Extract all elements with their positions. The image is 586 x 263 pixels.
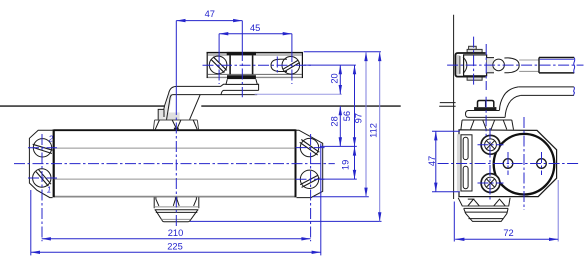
- body inner line lower: [55, 178, 295, 180]
- body inner line upper: [55, 147, 295, 149]
- arm plate: [466, 111, 506, 118]
- left end cap: [29, 130, 52, 197]
- svg-text:47: 47: [205, 9, 215, 19]
- centerline knuckle axis: [485, 44, 487, 90]
- svg-text:97: 97: [354, 113, 364, 123]
- dim 72: [455, 228, 558, 239]
- centerline shoe axis: [473, 37, 475, 87]
- svg-text:19: 19: [340, 160, 350, 170]
- crosshair cap screw bottom: [28, 177, 57, 179]
- forearm shoe: [455, 53, 485, 77]
- ext line plate bottom: [432, 191, 460, 193]
- phillips screw top: [481, 135, 500, 154]
- pinion nut: [474, 101, 496, 111]
- frame line (door surface, right segment): [201, 105, 400, 107]
- big circle (cylinder end): [494, 134, 555, 195]
- dim 56: [342, 65, 355, 146]
- ext line bracket center right: [304, 64, 356, 66]
- dim 225: [31, 242, 321, 253]
- svg-text:225: 225: [167, 242, 183, 252]
- screw (left cap bottom): [33, 169, 51, 187]
- slot (obround hole): [271, 57, 287, 75]
- dim 28: [329, 106, 340, 146]
- screw (right cap bottom): [300, 170, 319, 188]
- shoe tab bottom: [467, 77, 482, 80]
- dim 210: [42, 228, 311, 239]
- dim 45: [219, 23, 292, 34]
- bottom shoe (left view): [154, 197, 199, 221]
- forearm tube: [487, 58, 520, 73]
- small hole left: [503, 159, 513, 169]
- forearm rod: [519, 58, 575, 73]
- dim 47 right view: [427, 131, 437, 192]
- ext line bracket screw left axis: [218, 34, 220, 51]
- top cap (pinion mount on body): [153, 120, 198, 130]
- main arm (end view): [500, 87, 575, 118]
- block in bracket: [227, 52, 256, 79]
- centerline right bracket axis: [447, 64, 583, 66]
- dim 47: [176, 9, 242, 20]
- svg-text:2: 2: [48, 135, 54, 144]
- svg-text:28: 28: [329, 116, 339, 126]
- ext line bracket top right: [304, 51, 381, 53]
- body outline: [54, 130, 296, 198]
- ext line 210 right: [310, 134, 312, 241]
- right end cap: [297, 130, 323, 197]
- svg-text:72: 72: [503, 228, 513, 238]
- bracket screw left: [209, 56, 227, 74]
- ext line top screw row right: [320, 145, 357, 147]
- centerline screws axis: [489, 128, 491, 201]
- top cap (end view): [461, 120, 514, 130]
- svg-text:45: 45: [250, 23, 260, 33]
- dim 19: [340, 146, 354, 179]
- bottom shoe (end view): [458, 198, 510, 222]
- ext line 72 left: [453, 202, 455, 242]
- top bracket rail: [207, 52, 304, 78]
- centerline pinion axis right: [485, 97, 487, 136]
- arm mid edge: [173, 94, 258, 96]
- svg-text:47: 47: [427, 156, 437, 166]
- ext line shoe bottom right: [190, 220, 382, 222]
- ext line body bottom right: [313, 196, 369, 198]
- dim 112: [368, 52, 379, 222]
- dim 20: [329, 65, 340, 94]
- crosshair cap screw top: [28, 147, 57, 149]
- arm upper edge: [165, 84, 259, 105]
- break symbol: [439, 103, 455, 107]
- centerline right body axis: [438, 163, 581, 165]
- shoe tab top: [467, 46, 482, 53]
- centerline small hole right: [541, 152, 543, 175]
- ext line 225 left: [30, 190, 32, 255]
- centerline body axis: [14, 163, 335, 165]
- svg-text:56: 56: [342, 111, 352, 121]
- ext line block axis: [241, 21, 243, 50]
- svg-text:210: 210: [168, 228, 184, 238]
- screw crosshair top: [478, 144, 504, 146]
- arm shading: [163, 93, 172, 120]
- frame line (door surface, left segment): [0, 105, 165, 107]
- ext line pinion axis: [175, 21, 177, 104]
- svg-text:20: 20: [329, 73, 339, 83]
- screw (left cap top): [33, 139, 53, 157]
- screw crosshair bottom: [478, 182, 504, 184]
- screw (right cap top): [300, 138, 320, 156]
- small hole right: [537, 159, 547, 169]
- centerline big circle axis: [523, 117, 525, 210]
- body end outline (octagon): [459, 130, 557, 197]
- forearm bar bottom: [221, 90, 259, 94]
- ext line 210 left: [41, 134, 43, 241]
- ext line 72 right: [557, 180, 559, 242]
- wall line: [453, 15, 455, 199]
- centerline bracket axis: [203, 64, 312, 66]
- ext line bottom screw row right: [320, 178, 357, 180]
- knuckle block: [464, 55, 487, 76]
- crosshair right cap screw top: [296, 147, 325, 149]
- ext line 225 right: [320, 144, 322, 256]
- ext line plate top: [432, 130, 460, 132]
- pin pocket arc: [463, 57, 467, 73]
- nut under bracket: [226, 79, 257, 84]
- centerline small hole left: [507, 152, 509, 175]
- svg-text:1: 1: [47, 186, 51, 195]
- svg-text:112: 112: [368, 123, 378, 138]
- mounting plate strip: [457, 134, 472, 191]
- crosshair right cap screw bottom: [296, 178, 325, 180]
- phillips screw bottom: [481, 174, 500, 193]
- dim 97: [354, 52, 366, 197]
- arm hub: [166, 95, 200, 121]
- ext line arm bottom (light): [255, 93, 342, 95]
- ext line bracket screw right axis: [291, 34, 293, 51]
- bracket screw right: [282, 57, 300, 75]
- arm heel: [158, 106, 164, 120]
